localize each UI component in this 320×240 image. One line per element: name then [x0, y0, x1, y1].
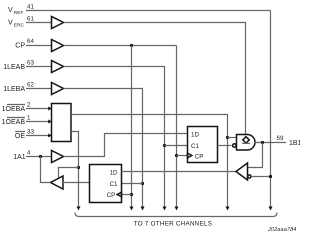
wire latch2 output to driver A	[63, 182, 90, 184]
svg-text:33: 33	[27, 129, 34, 136]
wire 1LEBA to latch2 C1	[64, 89, 143, 207]
buffer VERC	[52, 17, 64, 29]
svg-text:1: 1	[27, 115, 31, 122]
arrow down ch CP-right	[175, 207, 179, 211]
arrow down ch 1LEAB	[163, 207, 167, 211]
node enable-A branch	[77, 166, 80, 169]
wire 1A1 input	[26, 156, 52, 158]
driver A (left triangle)	[51, 176, 64, 189]
svg-text:V: V	[8, 7, 13, 14]
svg-text:61: 61	[27, 16, 34, 23]
svg-text:V: V	[8, 19, 13, 26]
arrow down ch CP-left	[130, 207, 134, 211]
bubble on gate data input	[233, 144, 236, 147]
arrow into OE box 1	[48, 107, 52, 111]
open-drain symbol underline	[242, 142, 250, 144]
wire enable-A to driver	[59, 168, 79, 179]
OE control box	[52, 104, 72, 142]
svg-text:C1: C1	[110, 181, 118, 188]
svg-text:1D: 1D	[110, 169, 118, 176]
svg-text:59: 59	[277, 135, 284, 142]
node CP to latch2	[130, 193, 133, 196]
wire 1A1 buffered up to latch1 1D	[64, 134, 188, 157]
arrow down ch enable-A	[77, 207, 81, 211]
svg-text:4: 4	[27, 150, 31, 157]
svg-text:C1: C1	[191, 143, 199, 150]
svg-text:1OEBA: 1OEBA	[2, 106, 26, 113]
node CP branch	[130, 44, 133, 47]
svg-text:1OEAB: 1OEAB	[2, 119, 26, 126]
svg-text:TO 7 OTHER CHANNELS: TO 7 OTHER CHANNELS	[134, 221, 212, 228]
edge triangle latch2 CP	[117, 192, 121, 197]
wire CP trunk	[64, 45, 177, 47]
node 1LEAB to latch1	[163, 144, 166, 147]
wire enable-B stub into gate	[228, 137, 237, 139]
wire CP stub to latch1 CP	[177, 155, 188, 157]
wire latch1 output to gate bubble	[218, 145, 232, 147]
node 1A1 pin	[39, 155, 42, 158]
wire gate output to 1B1	[255, 142, 286, 144]
wire 1LEBA stub to latch2 C1	[122, 183, 143, 185]
svg-text:CP: CP	[195, 153, 204, 160]
node 1LEBA to latch2	[141, 182, 144, 185]
overline 1OEBA	[7, 104, 25, 106]
overline 1OEAB	[7, 117, 25, 119]
svg-text:1D: 1D	[191, 131, 199, 138]
wire enable-B from OE box	[71, 115, 228, 207]
bracket to other channels	[75, 213, 277, 217]
wire VREF to receiver	[252, 176, 271, 178]
node B output	[261, 141, 264, 144]
wire 1OEAB input	[26, 121, 49, 123]
latch A-to-B (right)	[188, 127, 218, 163]
open-drain symbol diamond	[243, 137, 249, 143]
wire VREF vertical drop	[270, 11, 272, 207]
arrow down ch VREF	[269, 207, 273, 211]
node CP to latch1	[175, 154, 178, 157]
wire CP stub to latch2 CP	[122, 194, 132, 196]
gate output driver (AND shape, open drain)	[237, 135, 256, 151]
wire enable-A from OE box	[71, 132, 79, 207]
wire VERC input	[26, 22, 52, 24]
buffer 1LEAB	[52, 61, 64, 73]
arrow into OE box 3	[48, 134, 52, 138]
wire 1LEBA input	[26, 88, 52, 90]
wire VERC to gate top	[64, 23, 246, 136]
svg-text:62: 62	[27, 82, 34, 89]
wire 1LEAB input	[26, 66, 52, 68]
svg-text:41: 41	[27, 4, 34, 11]
wire OE input	[26, 135, 49, 137]
svg-text:64: 64	[27, 38, 34, 45]
node enable-B to gate	[226, 136, 229, 139]
latch B-to-A (lower left)	[90, 165, 122, 203]
svg-text:1A1: 1A1	[13, 154, 26, 161]
wire receiver output to latch2 1D	[122, 171, 237, 173]
receiver B (right triangle)	[236, 163, 248, 180]
svg-text:CP: CP	[107, 192, 116, 199]
wire CP branch right vertical	[176, 46, 178, 207]
svg-text:REF: REF	[14, 10, 24, 16]
overline OE	[15, 131, 25, 133]
wire B feedback to receiver	[248, 143, 263, 168]
svg-text:1LEBA: 1LEBA	[3, 86, 25, 93]
edge triangle latch1 CP	[188, 153, 192, 158]
svg-text:1LEAB: 1LEAB	[3, 64, 25, 71]
buffer 1LEBA	[52, 83, 64, 95]
wire 1LEAB stub to latch1 C1	[165, 145, 188, 147]
wire 1OEBA input	[26, 108, 49, 110]
arrow into OE box 2	[48, 120, 52, 124]
svg-text:J02aaa784: J02aaa784	[267, 227, 296, 233]
arrow down ch 1LEBA	[141, 207, 145, 211]
svg-text:2: 2	[27, 102, 31, 109]
wire driver A output to pin	[41, 157, 51, 183]
wire 1LEAB to latch1 C1	[64, 67, 165, 207]
bubble receiver ref input	[248, 175, 251, 178]
svg-text:63: 63	[27, 60, 34, 67]
buffer CP	[52, 40, 64, 52]
svg-text:ERC: ERC	[14, 22, 25, 28]
svg-text:1B1: 1B1	[289, 140, 300, 147]
svg-text:OE: OE	[15, 133, 25, 140]
svg-text:CP: CP	[15, 43, 25, 50]
wire CP input	[26, 45, 52, 47]
wire CP branch left vertical	[131, 46, 133, 207]
node VREF tap	[269, 175, 272, 178]
arrow down ch enable-B	[226, 207, 230, 211]
wire VREF horizontal	[26, 10, 271, 12]
buffer 1A1	[52, 151, 64, 163]
